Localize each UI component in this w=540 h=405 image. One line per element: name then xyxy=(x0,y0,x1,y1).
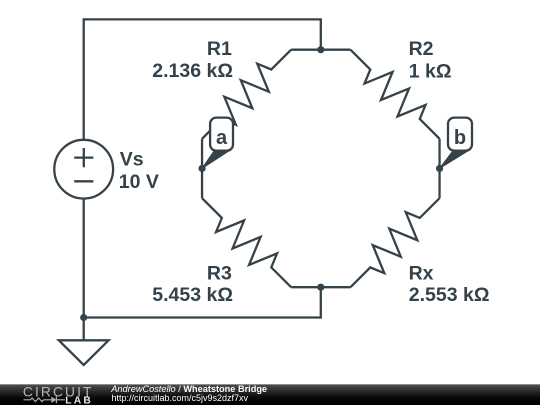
node a flag xyxy=(202,118,233,169)
wire: voltage source top to bridge top node xyxy=(84,19,321,139)
junction: ground wire xyxy=(80,314,87,321)
voltage source Vs xyxy=(54,140,113,199)
junction: node b xyxy=(436,165,443,172)
CircuitLab logo xyxy=(23,385,94,405)
wire: node a to R3 xyxy=(201,168,203,198)
ground xyxy=(59,340,109,365)
junction: bridge top node xyxy=(317,46,324,53)
wire: R3 to bottom node xyxy=(291,286,321,288)
resistor Rx xyxy=(351,198,440,287)
resistor R3 xyxy=(202,198,291,287)
wire: junction to ground symbol xyxy=(83,318,85,341)
wire: bridge bottom node to ground junction xyxy=(84,287,321,317)
svg-text:http://circuitlab.com/c5jv9s2d: http://circuitlab.com/c5jv9s2dzf7xv xyxy=(112,393,249,403)
svg-text:LAB: LAB xyxy=(65,395,93,405)
node b flag xyxy=(440,118,472,169)
junction: node a xyxy=(198,165,205,172)
resistor R1 xyxy=(202,50,291,139)
wire: node b to Rx xyxy=(438,168,440,198)
wire: bottom node to Rx xyxy=(321,286,351,288)
wire: top node to R1 xyxy=(291,49,321,51)
wire: R2 to node b xyxy=(438,139,440,169)
resistor R2 xyxy=(351,50,440,139)
junction: bridge bottom node xyxy=(317,284,324,291)
wire: R1 to node a xyxy=(201,139,203,169)
wire: voltage source bottom to ground junction xyxy=(83,199,85,318)
wire: top node to R2 xyxy=(321,49,351,51)
